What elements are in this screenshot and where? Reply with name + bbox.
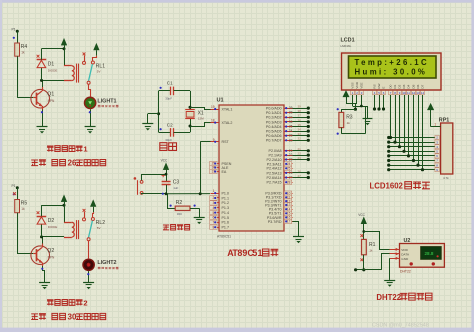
resistor R5 1k	[15, 200, 20, 213]
svg-text:P1.7: P1.7	[222, 226, 230, 230]
svg-text:P2.3/A11: P2.3/A11	[267, 162, 282, 166]
U1 pin P2.7/A15 (28)	[284, 182, 293, 184]
U2 pin DATA (2)	[390, 253, 400, 255]
svg-text:14: 14	[421, 91, 425, 95]
U1 pin P1.4 (5)	[211, 212, 220, 214]
svg-text:D0: D0	[389, 84, 393, 88]
wire data bus row D6 to RP1 pin 8	[389, 165, 435, 167]
ground below Q1	[37, 126, 48, 128]
wire input to R5	[17, 188, 19, 200]
wire LCD RW to bus stub	[379, 95, 381, 109]
svg-text:300: 300	[177, 212, 182, 216]
ground for DHT22	[384, 280, 395, 282]
wire rail to ground tap	[148, 113, 159, 115]
wire input to R4	[17, 31, 19, 43]
wire crystal right rail	[190, 91, 192, 110]
svg-text:D2: D2	[48, 218, 55, 224]
push button (reset)	[134, 177, 137, 180]
svg-text:1: 1	[257, 248, 262, 258]
svg-text:24: 24	[287, 162, 291, 166]
wire R4 to Q1 base	[17, 56, 19, 97]
svg-text:P0.5/AD5: P0.5/AD5	[266, 130, 282, 134]
U1 pin P1.6 (7)	[211, 222, 220, 224]
svg-text:12M: 12M	[198, 117, 204, 121]
svg-text:GND: GND	[401, 257, 409, 261]
svg-text:VCC: VCC	[161, 159, 168, 163]
ground at U1 lower right	[293, 236, 304, 238]
annotation: relay module 2 behavior	[31, 314, 38, 320]
wire rail to relay RL1 coil	[64, 49, 66, 66]
capacitor C3 electrolytic	[162, 174, 165, 177]
transistor Q2 NPN	[31, 246, 50, 265]
wire RL1 to LIGHT1	[89, 84, 91, 96]
wire Q1 emitter to ground	[42, 110, 44, 127]
svg-text:4.7k: 4.7k	[443, 176, 449, 180]
svg-text:1: 1	[117, 105, 119, 109]
svg-text:D6: D6	[416, 84, 420, 88]
svg-text:Q1: Q1	[47, 92, 54, 98]
wire to RL1 throw contact	[93, 56, 97, 61]
svg-text:39: 39	[298, 105, 302, 109]
svg-text:P2.2/A10: P2.2/A10	[267, 158, 282, 162]
svg-text:19: 19	[211, 105, 215, 109]
wire LCD D6 vertical drop	[418, 95, 420, 165]
svg-text:P1.1: P1.1	[222, 196, 230, 200]
svg-text:P0.3/AD3: P0.3/AD3	[266, 120, 282, 124]
svg-text:XTAL2: XTAL2	[222, 121, 233, 125]
wire reset node to RST pin	[200, 142, 202, 194]
svg-text:LM016L: LM016L	[341, 44, 352, 48]
U1 pin ALE (30)	[211, 167, 220, 169]
annotation: relay module 1 title	[47, 146, 54, 152]
svg-text:P2.7/A15: P2.7/A15	[267, 181, 282, 185]
wire X1 to XTAL1	[190, 108, 219, 110]
U1 pin P3.5/T1 (15)	[284, 213, 293, 215]
svg-text:R5: R5	[21, 201, 28, 207]
svg-text:P1.6: P1.6	[222, 221, 230, 225]
ground for LCD VSS	[363, 118, 373, 120]
svg-text:1: 1	[434, 123, 436, 127]
U2 pin VDD (1)	[390, 249, 400, 251]
wire P3.7 row to ground	[293, 222, 299, 237]
U1 pin P1.1 (2)	[211, 197, 220, 199]
wire to RL2 throw contact	[93, 212, 94, 217]
svg-text:DATA: DATA	[401, 252, 410, 256]
relay RL2 coil	[64, 222, 72, 224]
svg-text:28.8: 28.8	[425, 251, 434, 256]
wire R2 to ground	[199, 208, 201, 217]
relay RL1 switch lever	[89, 64, 93, 81]
wire X1 to XTAL2	[190, 123, 219, 127]
svg-text:RW: RW	[377, 83, 381, 88]
svg-text:P0.0/AD0: P0.0/AD0	[266, 107, 282, 111]
svg-text:5V: 5V	[97, 226, 101, 230]
U1 pin P0.5/AD5 (34) with wire	[284, 131, 293, 133]
annotation: relay module 2 title	[47, 299, 54, 305]
wire LCD D3 vertical drop	[404, 95, 406, 151]
U1 pin P0.2/AD2 (37) with wire	[284, 117, 293, 119]
svg-text:18: 18	[211, 119, 215, 123]
wire data bus row D4 to RP1 pin 6	[389, 155, 435, 157]
U2 pin GND (3)	[390, 258, 400, 260]
svg-text:1uF: 1uF	[173, 186, 178, 190]
ground below LIGHT2	[83, 282, 94, 284]
power VCC arrow at LCD VDD	[343, 91, 349, 97]
svg-text:1k: 1k	[369, 248, 373, 252]
svg-text:DIODE: DIODE	[48, 68, 58, 72]
svg-text:P2.5/A13: P2.5/A13	[267, 171, 282, 175]
svg-text:32: 32	[289, 138, 293, 142]
svg-text:RST: RST	[222, 140, 230, 144]
wire LCD D1 vertical drop	[395, 95, 397, 142]
U1 pin P2.0/A8 (21) with wire	[284, 150, 293, 152]
svg-text:23: 23	[289, 158, 293, 162]
svg-text:1k: 1k	[347, 121, 351, 125]
svg-text:NPN: NPN	[48, 99, 55, 103]
svg-text:R2: R2	[176, 200, 183, 206]
svg-text:P3.7/RD: P3.7/RD	[268, 220, 282, 224]
svg-text:RS: RS	[373, 84, 377, 88]
svg-text:2: 2	[83, 298, 87, 307]
U1 pin P3.1/TXD (11)	[284, 197, 293, 199]
ground below Q2	[39, 282, 50, 284]
svg-text:P2.4/A12: P2.4/A12	[267, 167, 282, 171]
svg-text:DHT22: DHT22	[376, 293, 401, 302]
relay RL2 core	[76, 220, 78, 239]
wire Q1 collector node	[42, 80, 44, 87]
wire data bus row D1 to RP1 pin 3	[389, 142, 435, 144]
wire Q2 collector node	[42, 237, 44, 244]
relay RL2 pole contact	[83, 209, 86, 212]
svg-text:Q2: Q2	[47, 248, 54, 254]
svg-text:R1: R1	[369, 242, 376, 248]
U1 pin PSEN (29)	[211, 163, 220, 165]
svg-text:CSDN @m0_74852548: CSDN @m0_74852548	[372, 323, 429, 329]
svg-text:P1.3: P1.3	[222, 206, 230, 210]
U1 pin XTAL2 (18)	[211, 122, 220, 124]
svg-text:P1.2: P1.2	[222, 201, 230, 205]
annotation: reset circuit title	[163, 225, 169, 230]
svg-text:P1.0: P1.0	[222, 192, 230, 196]
wire VCC branch to U2 VDD	[364, 232, 390, 250]
U1 pin P0.0/AD0 (39) with wire	[284, 108, 293, 110]
svg-text:P1.4: P1.4	[222, 211, 230, 215]
U2 internal LED display	[421, 247, 442, 260]
svg-text:25: 25	[287, 167, 291, 171]
U1 pin RST (9)	[211, 141, 220, 143]
svg-text:P2.6/A14: P2.6/A14	[267, 176, 282, 180]
svg-text:37: 37	[289, 115, 293, 119]
power +5V arrow for RL1 contact	[94, 44, 99, 50]
wire LIGHT1 to ground	[90, 109, 92, 126]
wire R3 bottom loop	[341, 128, 343, 134]
U1 pin P0.4/AD4 (35) with wire	[284, 126, 293, 128]
svg-text:D7: D7	[421, 84, 425, 88]
svg-text:22: 22	[289, 153, 293, 157]
svg-text:P0.1/AD1: P0.1/AD1	[266, 111, 282, 115]
svg-text:VCC: VCC	[358, 213, 365, 217]
U1 pin P0.6/AD6 (33) with wire	[284, 135, 293, 137]
annotation: relay module 1 behavior	[31, 160, 38, 166]
svg-text:33: 33	[289, 134, 293, 138]
svg-text:39: 39	[289, 106, 293, 110]
svg-text:D3: D3	[402, 84, 406, 88]
svg-text:11: 11	[407, 91, 410, 95]
svg-text:VDD: VDD	[355, 81, 359, 88]
svg-text:P0.6/AD6: P0.6/AD6	[266, 134, 282, 138]
U1 pin P2.1/A9 (22) with wire	[284, 155, 293, 157]
ground for crystal caps	[142, 123, 153, 125]
U1 pin P2.5/A13 (26) with wire	[284, 172, 293, 174]
svg-text:P0.7/AD7: P0.7/AD7	[266, 139, 282, 143]
svg-text:LCD1602: LCD1602	[370, 182, 404, 191]
svg-text:36: 36	[289, 120, 293, 124]
svg-text:C3: C3	[173, 179, 180, 185]
wire button top to VCC node	[142, 175, 167, 181]
U1 pin P2.3/A11 (24)	[284, 163, 293, 165]
svg-text:34: 34	[298, 128, 302, 132]
svg-text:P2.1/A9: P2.1/A9	[269, 154, 282, 158]
svg-text:10: 10	[402, 91, 406, 95]
svg-text:5V: 5V	[97, 70, 101, 74]
svg-text:D4: D4	[407, 84, 411, 88]
svg-text:R3: R3	[346, 115, 353, 121]
svg-text:X1: X1	[198, 110, 204, 116]
svg-text:LIGHT2: LIGHT2	[97, 260, 116, 266]
svg-text:C2: C2	[167, 122, 173, 127]
wire LCD D4 vertical drop	[408, 95, 410, 156]
wire data bus row D2 to RP1 pin 4	[389, 146, 435, 148]
svg-text:C1: C1	[167, 81, 173, 86]
svg-text:VEE: VEE	[360, 82, 364, 88]
wire R1 bottom to DATA line	[363, 255, 365, 270]
svg-text:XTAL1: XTAL1	[222, 107, 233, 111]
svg-text:P1: P1	[12, 28, 16, 32]
wire data bus row D3 to RP1 pin 5	[389, 151, 435, 153]
svg-text:Humi: 30.0%: Humi: 30.0%	[355, 68, 428, 77]
U1 pin P3.4/T0 (14)	[284, 209, 293, 211]
wire LCD E to bus stub	[383, 95, 385, 109]
svg-text:26: 26	[289, 171, 293, 175]
wire LIGHT2 to ground	[88, 271, 90, 282]
power +5V arrow for RL2 contact	[91, 200, 96, 206]
wire U2 GND to ground	[389, 258, 391, 280]
lamp LIGHT2	[83, 259, 94, 270]
wire crystal left rail	[158, 91, 160, 132]
U1 pin P2.2/A10 (23) with wire	[284, 159, 293, 161]
U1 pin P3.3/INT1 (13)	[284, 205, 293, 207]
svg-text:30pF: 30pF	[165, 138, 172, 142]
svg-text:VDD: VDD	[401, 248, 408, 252]
U2 indicator dots	[410, 262, 413, 265]
svg-text:P0.4/AD4: P0.4/AD4	[266, 125, 282, 129]
wire VSS / VEE to ground rail	[352, 95, 354, 106]
ground for reset resistor	[194, 217, 205, 219]
U1 pin P0.3/AD3 (36) with wire	[284, 121, 293, 123]
relay RL2 switch lever	[89, 221, 93, 238]
svg-text:P1: P1	[12, 184, 16, 188]
svg-text:35: 35	[289, 125, 293, 129]
power VCC arrow for RP1 common	[428, 104, 434, 110]
wire LCD D5 vertical drop	[413, 95, 415, 161]
U1 pin P0.1/AD1 (38) with wire	[284, 112, 293, 114]
wire data bus row D7 to RP1 pin 9	[389, 169, 435, 171]
wire data bus row D5 to RP1 pin 7	[389, 160, 435, 162]
svg-text:E: E	[382, 87, 386, 89]
svg-text:NPN: NPN	[48, 255, 55, 259]
svg-text:R4: R4	[21, 44, 28, 50]
wire D2 cathode to +5V rail	[41, 205, 43, 216]
resistor R1 1k pull-up	[360, 234, 363, 237]
U1 pin P3.0/RXD (10)	[284, 193, 293, 195]
svg-text:13: 13	[416, 91, 420, 95]
wire reset node	[142, 193, 167, 196]
transistor Q1 NPN	[31, 89, 50, 108]
svg-text:U1: U1	[217, 98, 224, 104]
wire DATA line to U2 DATA pin	[382, 254, 390, 270]
resistor R2 300	[167, 194, 169, 209]
svg-text:D2: D2	[398, 84, 402, 88]
annotation: crystal oscillator title	[160, 143, 167, 151]
U1 pin P0.7/AD7 (32) with wire	[284, 140, 293, 142]
U1 pin P1.2 (3)	[211, 202, 220, 204]
U1 pin P3.6/WR (16)	[284, 217, 293, 219]
ground below LIGHT1	[85, 126, 96, 128]
svg-text:38: 38	[289, 111, 293, 115]
U1 pin P3.2/INT0 (12)	[284, 201, 293, 203]
U1 pin EA (31)	[211, 171, 220, 173]
crystal X1 12MHz	[185, 109, 195, 111]
resistor R4 1k	[15, 43, 20, 56]
relay RL1 core	[76, 64, 78, 83]
svg-text:D1: D1	[393, 84, 397, 88]
wire VCC to VDD pin	[346, 95, 357, 104]
wire R5 to Q2 base	[17, 213, 19, 254]
svg-text:30pF: 30pF	[165, 96, 172, 100]
svg-text:28: 28	[287, 180, 291, 184]
power +5V arrow above relay coil 2	[61, 195, 66, 201]
wire LCD RS to bus stub	[374, 95, 376, 109]
svg-text:EA: EA	[222, 170, 227, 174]
svg-text:D1: D1	[48, 62, 55, 68]
svg-text:1k: 1k	[21, 51, 25, 55]
power +5V arrow above relay coil 1	[61, 39, 66, 45]
U1 pin XTAL1 (19)	[211, 109, 220, 111]
U1 pin P2.4/A12 (25)	[284, 168, 293, 170]
wire LCD D7 vertical drop	[422, 95, 424, 170]
U1 pin P1.7 (8)	[211, 227, 220, 229]
U1 pin P1.0 (1)	[211, 193, 220, 195]
wire LCD D2 vertical drop	[399, 95, 401, 147]
U1 pin P1.3 (4)	[211, 207, 220, 209]
relay RL1 coil	[64, 65, 72, 67]
svg-text:P0.2/AD2: P0.2/AD2	[266, 116, 282, 120]
LCD screen with readout text	[349, 56, 437, 78]
wire rail to relay RL2 coil	[64, 205, 66, 222]
svg-text:17: 17	[287, 220, 291, 224]
wire VDD node down to R3	[355, 103, 357, 109]
wire RL2 to LIGHT2	[88, 241, 90, 259]
svg-text:2: 2	[117, 267, 119, 271]
svg-text:Temp:+26.1C: Temp:+26.1C	[355, 58, 430, 67]
svg-text:D5: D5	[412, 84, 416, 88]
svg-text:P1.5: P1.5	[222, 216, 230, 220]
wire D1 cathode to +5V rail	[41, 49, 43, 60]
U1 pin P3.7/RD (17)	[284, 221, 293, 223]
svg-text:AT89C51: AT89C51	[217, 235, 231, 239]
svg-text:DIODE: DIODE	[48, 225, 58, 229]
svg-text:22: 22	[298, 152, 302, 156]
svg-text:12: 12	[412, 91, 416, 95]
wire data bus row D0 to RP1 pin 2	[389, 137, 435, 139]
svg-text:34: 34	[289, 129, 293, 133]
diode D2 DIODE (flyback)	[41, 224, 43, 237]
U1 pin P2.6/A14 (27) with wire	[284, 177, 293, 179]
svg-text:LIGHT1: LIGHT1	[97, 98, 116, 104]
wire LCD D0 vertical drop	[390, 95, 392, 138]
wire Q2 emitter to ground	[43, 266, 45, 282]
U1 pin P1.5 (6)	[211, 217, 220, 219]
sheet border strips	[0, 0, 474, 3]
relay RL1 pole contact	[83, 53, 86, 56]
svg-text:27: 27	[289, 176, 293, 180]
svg-text:1k: 1k	[21, 207, 25, 211]
resistor R3 1k (contrast)	[341, 109, 343, 112]
svg-text:LCD1: LCD1	[341, 38, 355, 44]
svg-text:VSS: VSS	[351, 82, 355, 88]
diode D1 DIODE (flyback)	[41, 68, 43, 81]
lamp LIGHT1	[85, 97, 96, 108]
svg-text:DHT22: DHT22	[400, 269, 411, 273]
wire VCC to RP1 pin 1	[431, 126, 441, 128]
